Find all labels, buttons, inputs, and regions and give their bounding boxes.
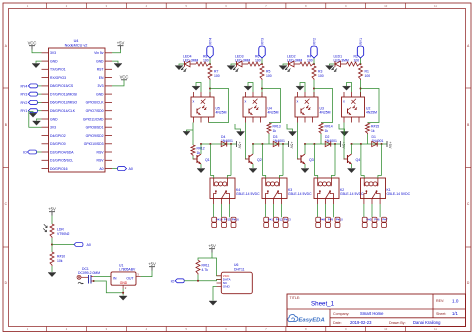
power flag VCC at U4 right 3V3 pin bbox=[112, 75, 128, 86]
ground at U4 right GND pin bbox=[112, 61, 122, 68]
wire DHT GND bbox=[213, 287, 217, 301]
svg-text:EN: EN bbox=[99, 76, 104, 80]
ground below R#10 bbox=[48, 273, 56, 277]
svg-text:D3/GPIO0: D3/GPIO0 bbox=[50, 142, 66, 146]
svg-text:TITLE:: TITLE: bbox=[290, 296, 301, 300]
opto-isolator U4 4N25M bbox=[243, 92, 279, 123]
wire coil left bbox=[313, 144, 315, 176]
resistor R#10 10k bbox=[50, 252, 65, 266]
terminal P#13 bbox=[283, 217, 291, 227]
net flag RY1 bbox=[357, 38, 363, 64]
svg-text:+5V: +5V bbox=[290, 142, 294, 149]
ground at Q3 emitter bbox=[301, 169, 309, 173]
op-amp U4 NodeMCU v2 module bbox=[42, 39, 113, 172]
wire to terminal P#16 bbox=[229, 199, 231, 205]
node junction at RY2 bbox=[313, 63, 315, 65]
svg-text:A0: A0 bbox=[129, 167, 133, 171]
svg-text:Sheet:: Sheet: bbox=[436, 312, 446, 316]
svg-text:IO: IO bbox=[171, 279, 175, 283]
svg-text:LED-3MM: LED-3MM bbox=[334, 58, 349, 62]
svg-text:+5V: +5V bbox=[117, 41, 125, 46]
power flag +5V rotated at coil rail bbox=[233, 141, 242, 149]
transistor Q3 bbox=[297, 154, 314, 164]
svg-text:DC099-2.0MM: DC099-2.0MM bbox=[78, 271, 100, 275]
relay K3 G5LE-14 5VDC bbox=[262, 176, 312, 199]
svg-text:VCC: VCC bbox=[28, 41, 37, 46]
resistor R2 100 bbox=[347, 55, 361, 66]
wire relay coil rail bbox=[305, 143, 337, 145]
svg-text:GND: GND bbox=[120, 281, 128, 285]
svg-text:x: x bbox=[297, 100, 299, 104]
opto-isolator U5 4N25M bbox=[191, 92, 227, 123]
resistor R#13 1k bbox=[267, 123, 281, 134]
ground at Q2 emitter bbox=[249, 169, 257, 173]
ground at LED LED1 cathode bbox=[326, 64, 336, 70]
node junction coil right bbox=[381, 143, 383, 145]
ground at Q1 emitter bbox=[197, 169, 205, 173]
svg-text:GND: GND bbox=[50, 59, 58, 63]
wire 1k to coil rail bbox=[268, 134, 270, 144]
svg-text:RY1: RY1 bbox=[359, 38, 363, 45]
svg-text:1k: 1k bbox=[197, 151, 201, 155]
wire +5V to Vin bbox=[112, 50, 121, 53]
wire collector bbox=[252, 144, 254, 154]
wire coil right bbox=[381, 144, 383, 176]
svg-text:A0: A0 bbox=[87, 243, 91, 247]
diode D1 1N4001 bbox=[372, 135, 384, 146]
node junction bbox=[261, 88, 263, 90]
wire emitter to ground bbox=[304, 164, 306, 168]
svg-text:RST: RST bbox=[97, 68, 104, 72]
svg-text:D7/GPIO13/MOSI: D7/GPIO13/MOSI bbox=[50, 92, 77, 96]
wire base bbox=[344, 123, 346, 160]
svg-text:RY3: RY3 bbox=[20, 93, 27, 97]
wire +5V to DHT VCC bbox=[212, 258, 221, 276]
wire 1k to coil rail bbox=[320, 134, 322, 144]
svg-text:D5/GPIO14/CLK: D5/GPIO14/CLK bbox=[50, 109, 76, 113]
ground at LED LED3 cathode bbox=[227, 64, 237, 70]
svg-text:D4/GPIO2: D4/GPIO2 bbox=[50, 134, 66, 138]
relay K4 G5LE-14 5VDC bbox=[210, 176, 260, 199]
transistor Q1 bbox=[193, 154, 210, 164]
svg-text:Smart Home: Smart Home bbox=[360, 311, 384, 316]
node junction at RY3 bbox=[261, 63, 263, 65]
svg-text:x: x bbox=[245, 100, 247, 104]
wire emitter to ground bbox=[351, 164, 353, 168]
svg-text:+5V: +5V bbox=[238, 142, 242, 149]
svg-text:Company:: Company: bbox=[333, 312, 349, 316]
svg-text:RSV: RSV bbox=[97, 159, 105, 163]
node junction at RY1 bbox=[360, 63, 362, 65]
photoresistor LDR VT90N2 bbox=[43, 224, 69, 238]
svg-text:LED-3MM: LED-3MM bbox=[235, 58, 250, 62]
transistor Q4 bbox=[344, 154, 361, 164]
wire to terminal P#9 bbox=[325, 199, 327, 205]
wire to terminal P#11 bbox=[264, 199, 266, 205]
svg-text:P#10: P#10 bbox=[336, 218, 343, 222]
ground above opto U4 bbox=[244, 83, 253, 93]
transistor Q2 bbox=[245, 154, 262, 164]
svg-text:B: B bbox=[5, 123, 7, 127]
svg-text:100: 100 bbox=[365, 74, 371, 78]
wire base bbox=[193, 156, 195, 159]
net port RY4 at U4 pin D8/GPIO15/CS bbox=[20, 84, 41, 88]
ground below regulator bbox=[119, 296, 127, 300]
svg-text:D2/GPIO4/SDA: D2/GPIO4/SDA bbox=[50, 150, 74, 154]
svg-text:GPIO6/CLK: GPIO6/CLK bbox=[86, 101, 105, 105]
terminal P#11 bbox=[264, 217, 275, 227]
power flag +5V rotated at coil rail bbox=[337, 141, 346, 149]
wire coil left bbox=[209, 144, 211, 176]
power flag +5V at DHT11 bbox=[198, 244, 216, 261]
svg-text:Q3: Q3 bbox=[309, 158, 314, 162]
svg-text:1.0: 1.0 bbox=[452, 299, 459, 304]
wire emitter to ground bbox=[252, 164, 254, 168]
node junction bbox=[360, 88, 362, 90]
terminal P#14 bbox=[212, 217, 223, 227]
svg-text:+5V: +5V bbox=[388, 142, 392, 149]
resistor R#12 1k bbox=[191, 123, 205, 157]
svg-text:Date:: Date: bbox=[333, 321, 342, 325]
wire feedback loop bbox=[314, 89, 333, 123]
svg-text:G5LE-14 5VDC: G5LE-14 5VDC bbox=[288, 192, 312, 196]
power flag +5V rotated at coil rail bbox=[285, 141, 294, 149]
wire to A0 port bbox=[52, 244, 74, 246]
wire IO port to DATA pin bbox=[184, 279, 221, 280]
svg-text:4N25M: 4N25M bbox=[366, 110, 377, 114]
ground at Q4 emitter bbox=[348, 169, 356, 173]
svg-text:1k: 1k bbox=[273, 129, 277, 133]
svg-text:RY2: RY2 bbox=[20, 101, 27, 105]
wire to terminal P#10 bbox=[333, 199, 335, 205]
opto-isolator U3 4N25M bbox=[295, 92, 331, 123]
ground between channels bbox=[287, 124, 297, 136]
wire relay coil rail bbox=[201, 143, 233, 145]
net port IO at U4 pin D2/GPIO4/SDA bbox=[23, 150, 41, 154]
svg-text:1k: 1k bbox=[371, 129, 375, 133]
ground between channels bbox=[339, 124, 349, 136]
resistor R6 100 bbox=[248, 55, 262, 66]
wire collector bbox=[304, 144, 306, 154]
svg-text:1k: 1k bbox=[325, 129, 329, 133]
node junction coil left bbox=[261, 143, 263, 145]
wire collector bbox=[200, 144, 202, 154]
title block bbox=[287, 294, 466, 327]
terminal P#9 bbox=[326, 217, 334, 227]
svg-text:Q2: Q2 bbox=[257, 158, 262, 162]
svg-text:1/1: 1/1 bbox=[452, 311, 458, 316]
relay K2 G5LE-14 5VDC bbox=[314, 176, 364, 199]
wire to terminal P#14 bbox=[212, 199, 214, 205]
diode D3 1N4001 bbox=[273, 135, 285, 146]
node junction collector bbox=[304, 143, 306, 145]
resistor R5 100 bbox=[260, 66, 272, 80]
node junction bbox=[209, 88, 211, 90]
svg-text:+5V: +5V bbox=[48, 207, 56, 212]
net flag RY3 bbox=[259, 38, 265, 64]
svg-text:U4: U4 bbox=[74, 39, 79, 43]
wire 1k to coil rail bbox=[367, 134, 369, 144]
svg-text:OUT: OUT bbox=[126, 277, 133, 281]
svg-text:100: 100 bbox=[307, 58, 313, 62]
ground above opto U2 bbox=[343, 83, 352, 93]
terminal P#10 bbox=[335, 217, 343, 227]
power flag VCC at U4 3V3 pin 1 bbox=[28, 41, 37, 50]
node junction collector bbox=[200, 143, 202, 145]
svg-text:3V3: 3V3 bbox=[50, 51, 56, 55]
net port IO at DHT11 bbox=[171, 279, 185, 284]
LED LED4 LED-3MM bbox=[181, 55, 198, 72]
terminal P#15 bbox=[222, 217, 231, 227]
svg-text:GND: GND bbox=[223, 285, 231, 289]
terminal P#8 bbox=[316, 217, 326, 227]
wire to terminal P#15 bbox=[221, 199, 223, 205]
wire to terminal P#8 bbox=[316, 199, 318, 205]
svg-text:x: x bbox=[193, 100, 195, 104]
net port RY3 at U4 pin D7/GPIO13/MOSI bbox=[20, 92, 41, 96]
svg-text:RY3: RY3 bbox=[261, 38, 265, 45]
wire feedback loop bbox=[209, 89, 229, 123]
svg-text:RX/GPIO3: RX/GPIO3 bbox=[50, 76, 66, 80]
wire feedback loop bbox=[262, 89, 281, 123]
power flag +5V rotated at coil rail bbox=[384, 141, 393, 149]
svg-text:REV:: REV: bbox=[436, 299, 444, 303]
ground hook at base bbox=[183, 130, 193, 135]
svg-text:4N25M: 4N25M bbox=[320, 110, 331, 114]
power flag +5V at U4 Vin pin bbox=[117, 41, 125, 50]
svg-text:LED-3MM: LED-3MM bbox=[183, 58, 198, 62]
ground above opto U5 bbox=[192, 83, 201, 93]
wire R#11 to DATA bbox=[197, 275, 199, 281]
svg-text:P#16: P#16 bbox=[232, 218, 239, 222]
svg-text:4N25M: 4N25M bbox=[216, 110, 227, 114]
resistor R1 100 bbox=[359, 66, 371, 80]
net port A0 bbox=[74, 243, 91, 247]
terminal P#7 bbox=[382, 217, 388, 227]
svg-text:G5LE-14 5VDC: G5LE-14 5VDC bbox=[236, 192, 260, 196]
svg-text:Danai Krailong: Danai Krailong bbox=[413, 320, 441, 325]
diode D2 1N4001 bbox=[325, 135, 337, 146]
svg-text:100: 100 bbox=[354, 58, 360, 62]
svg-text:GND: GND bbox=[96, 59, 104, 63]
wire coil right bbox=[282, 144, 284, 176]
relay K1 G5LE-14 5VDC bbox=[361, 176, 411, 199]
wire coil right bbox=[334, 144, 336, 176]
node junction coil left bbox=[360, 143, 362, 145]
node junction coil right bbox=[282, 143, 284, 145]
wire emitter to ground bbox=[200, 164, 202, 168]
svg-text:RY1: RY1 bbox=[20, 109, 27, 113]
svg-text:RY4: RY4 bbox=[209, 38, 213, 45]
svg-text:100: 100 bbox=[214, 74, 220, 78]
net port RY1 at U4 pin D5/GPIO14/CLK bbox=[20, 109, 41, 113]
LED LED2 LED-3MM bbox=[285, 55, 302, 72]
wire jack ground loop bbox=[94, 281, 123, 293]
node junction collector bbox=[351, 143, 353, 145]
svg-text:100: 100 bbox=[318, 74, 324, 78]
svg-text:G5LE-14 5VDC: G5LE-14 5VDC bbox=[387, 192, 411, 196]
net port RY2 at U4 pin D6/GPIO12/MISO bbox=[20, 100, 41, 104]
ground at U4 left GND pin 9 bbox=[33, 119, 42, 125]
svg-text:GPIO11/CMD: GPIO11/CMD bbox=[83, 117, 104, 121]
svg-text:100: 100 bbox=[203, 58, 209, 62]
ground at LED LED2 cathode bbox=[279, 64, 289, 70]
ground at U4 left GND pin 2 bbox=[32, 61, 42, 68]
svg-text:2019-02-23: 2019-02-23 bbox=[350, 320, 372, 325]
terminal P#12 bbox=[274, 217, 283, 227]
diode D4 1N4001 bbox=[221, 135, 233, 146]
net flag RY4 bbox=[207, 38, 213, 64]
svg-text:GPIO7/SD0: GPIO7/SD0 bbox=[86, 109, 104, 113]
svg-text:100: 100 bbox=[255, 58, 261, 62]
svg-text:GPIO9/SD2: GPIO9/SD2 bbox=[86, 134, 104, 138]
wire VCC to 3V3 bbox=[32, 50, 42, 53]
wire coil left bbox=[360, 144, 362, 176]
svg-text:Q1: Q1 bbox=[205, 158, 210, 162]
svg-text:GND: GND bbox=[50, 117, 58, 121]
svg-text:IN: IN bbox=[113, 277, 117, 281]
svg-text:3V3: 3V3 bbox=[50, 126, 56, 130]
svg-text:D1/GPIO5/SCL: D1/GPIO5/SCL bbox=[50, 159, 73, 163]
svg-text:D0/GPIO16: D0/GPIO16 bbox=[50, 167, 68, 171]
svg-text:Drawn By:: Drawn By: bbox=[389, 321, 406, 325]
svg-text:P#12: P#12 bbox=[276, 218, 283, 222]
wire to terminal P#12 bbox=[273, 199, 275, 205]
wire LDR to ground bbox=[51, 266, 53, 272]
node junction collector bbox=[252, 143, 254, 145]
wire to terminal P#6 bbox=[371, 199, 373, 205]
svg-text:Vin 5v: Vin 5v bbox=[94, 51, 104, 55]
resistor R#15 1k bbox=[366, 123, 380, 134]
wire to terminal P#7 bbox=[379, 199, 381, 205]
svg-text:4.7k: 4.7k bbox=[202, 268, 209, 272]
svg-text:+5V: +5V bbox=[208, 244, 216, 249]
wire collector bbox=[351, 144, 353, 154]
LED LED1 LED-3MM bbox=[332, 55, 349, 72]
wire coil left bbox=[261, 144, 263, 176]
wire base bbox=[246, 123, 248, 160]
node junction coil left bbox=[313, 143, 315, 145]
svg-text:D6/GPIO12/MISO: D6/GPIO12/MISO bbox=[50, 101, 77, 105]
wire to opto input bbox=[313, 80, 315, 97]
terminal P#16 bbox=[231, 217, 239, 227]
net flag RY2 bbox=[311, 38, 317, 64]
resistor R#14 1k bbox=[319, 123, 333, 134]
wire to opto input bbox=[360, 80, 362, 97]
wire jack to regulator IN bbox=[94, 276, 111, 278]
svg-text:P#15: P#15 bbox=[224, 218, 231, 222]
svg-text:100: 100 bbox=[266, 74, 272, 78]
node junction bbox=[313, 88, 315, 90]
svg-text:GND: GND bbox=[96, 92, 104, 96]
resistor R8 100 bbox=[196, 55, 210, 66]
connector DC1 DC099-2.0MM barrel jack bbox=[77, 267, 100, 284]
node junction coil right bbox=[334, 143, 336, 145]
wire to terminal P#5 bbox=[363, 199, 365, 205]
terminal P#5 bbox=[362, 217, 372, 227]
wire OUT to +5V bbox=[141, 271, 152, 277]
wire to terminal P#13 bbox=[281, 199, 283, 205]
wire to opto input bbox=[209, 80, 211, 97]
svg-text:VCC: VCC bbox=[120, 75, 129, 80]
opto-isolator U2 4N25M bbox=[342, 92, 378, 123]
resistor R#11 4.7k bbox=[196, 260, 209, 274]
svg-text:+5V: +5V bbox=[148, 262, 156, 267]
voltage regulator U1 L7805ABV bbox=[111, 264, 141, 290]
svg-text:IO: IO bbox=[23, 150, 27, 154]
wire relay coil rail bbox=[352, 143, 384, 145]
power flag +5V at regulator out bbox=[148, 262, 156, 271]
wire LDR junction bbox=[51, 238, 53, 252]
svg-text:+5V: +5V bbox=[342, 142, 346, 149]
ground below DHT11 bbox=[209, 301, 217, 305]
wire coil right bbox=[230, 144, 232, 176]
node junction at RY4 bbox=[209, 63, 211, 65]
net port A0 at U4 pin A0 bbox=[112, 167, 133, 171]
wire regulator GND bbox=[122, 289, 124, 296]
node junction DATA bbox=[197, 280, 199, 282]
resistor R4 100 bbox=[300, 55, 314, 66]
resistor R7 100 bbox=[208, 66, 220, 80]
ground between channels bbox=[235, 124, 245, 136]
ground at LED LED4 cathode bbox=[175, 64, 185, 70]
svg-text:RY2: RY2 bbox=[313, 38, 317, 45]
svg-text:10k: 10k bbox=[57, 259, 63, 263]
svg-text:VT90N2: VT90N2 bbox=[57, 232, 70, 236]
wire base bbox=[298, 123, 300, 160]
wire relay coil rail bbox=[253, 143, 285, 145]
svg-text:Sheet_1: Sheet_1 bbox=[311, 301, 335, 308]
sensor U6 DHT11 bbox=[217, 263, 253, 294]
svg-text:4N25M: 4N25M bbox=[268, 110, 279, 114]
svg-text:GPIO10/SD3: GPIO10/SD3 bbox=[84, 142, 104, 146]
svg-text:B: B bbox=[467, 123, 469, 127]
resistor R3 100 bbox=[312, 66, 324, 80]
svg-text:LED-3MM: LED-3MM bbox=[287, 58, 302, 62]
svg-text:Q4: Q4 bbox=[356, 158, 361, 162]
svg-text:x: x bbox=[343, 100, 345, 104]
wire feedback loop bbox=[361, 89, 380, 123]
svg-text:P#7: P#7 bbox=[382, 218, 388, 222]
LED LED3 LED-3MM bbox=[233, 55, 250, 72]
svg-text:RY4: RY4 bbox=[20, 84, 27, 88]
svg-text:GPIO8/SD1: GPIO8/SD1 bbox=[86, 126, 104, 130]
EasyEDA logo bbox=[288, 314, 325, 323]
terminal P#6 bbox=[372, 217, 380, 227]
svg-text:EasyEDA: EasyEDA bbox=[299, 317, 325, 323]
svg-text:NodeMCU v2: NodeMCU v2 bbox=[65, 44, 88, 48]
node junction regulator ground bbox=[122, 292, 124, 294]
svg-text:RSV: RSV bbox=[97, 150, 105, 154]
wire to opto input bbox=[261, 80, 263, 97]
power flag +5V at LDR bbox=[48, 207, 56, 225]
node junction coil left bbox=[209, 143, 211, 145]
svg-text:TX/GPIO1: TX/GPIO1 bbox=[50, 68, 66, 72]
node junction coil right bbox=[230, 143, 232, 145]
svg-text:A0: A0 bbox=[99, 167, 103, 171]
ground flag below RY1 bbox=[29, 112, 42, 128]
svg-text:3V3: 3V3 bbox=[97, 84, 103, 88]
ground above opto U3 bbox=[296, 83, 305, 93]
svg-text:L7805ABV: L7805ABV bbox=[119, 268, 136, 272]
svg-text:DHT11: DHT11 bbox=[234, 267, 245, 271]
svg-text:P#13: P#13 bbox=[284, 218, 291, 222]
svg-text:D8/GPIO15/CS: D8/GPIO15/CS bbox=[50, 84, 74, 88]
node junction A0 bbox=[51, 244, 53, 246]
